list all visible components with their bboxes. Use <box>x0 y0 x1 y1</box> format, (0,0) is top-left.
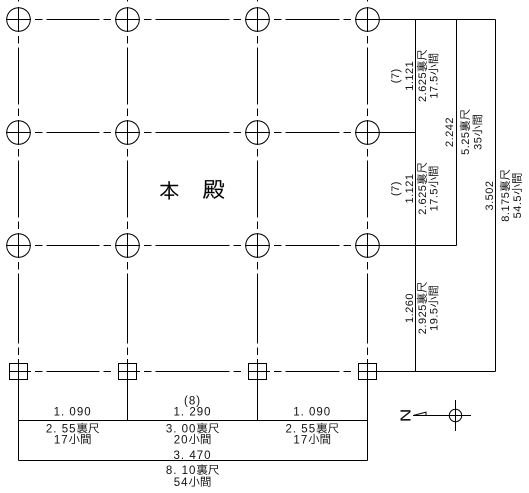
grid column line X4 top dash <box>367 0 369 2</box>
grid row Y4 dash-dot col2-col3 <box>144 371 241 373</box>
north arrow vertical crosshair <box>455 400 457 431</box>
extension line col X4 down <box>367 372 369 461</box>
grid row Y1 dash-dot col2-col3 <box>144 19 241 21</box>
svg-text:1. 290: 1. 290 <box>174 407 212 419</box>
dimension line tier A vertical <box>415 20 417 372</box>
grid row Y3 dash-dot col1-col2 <box>35 245 111 247</box>
grid row line Y2 left stub <box>6 132 19 134</box>
north arrow line <box>413 415 471 417</box>
grid row Y4 dash-dot col1-col2 <box>35 371 111 373</box>
dimension text 3.470 overall width <box>174 450 212 462</box>
svg-text:35: 35 <box>473 137 485 150</box>
svg-text:8. 10: 8. 10 <box>166 465 197 477</box>
svg-text:54.5: 54.5 <box>512 195 524 218</box>
grid column X2 dash-dot row1-row2 <box>127 36 129 116</box>
svg-text:19.5: 19.5 <box>429 307 441 330</box>
svg-text:17: 17 <box>54 435 69 447</box>
svg-text:2.625: 2.625 <box>417 185 429 215</box>
grid column X2 dash-dot row3-row4 <box>127 262 129 355</box>
dimension text 8.10 ura-shaku overall <box>166 464 219 477</box>
dimension text 1.121 span Y2-Y3 <box>404 173 416 203</box>
round column symbol grid X3/Y2 <box>245 120 270 145</box>
round column symbol grid X4/Y2 <box>355 120 380 145</box>
dimension text 1.290 middle span <box>174 407 212 419</box>
svg-text:8.175: 8.175 <box>500 192 512 222</box>
grid row Y2 dash-dot col3-col4 <box>274 132 351 134</box>
grid column X2 dash-dot row2-row3 <box>127 149 129 229</box>
grid row line Y1 left stub <box>6 19 19 21</box>
round column symbol grid X3/Y3 <box>245 233 270 258</box>
grid column X1 dash-dot row2-row3 <box>18 149 20 229</box>
grid row Y1 dash-dot col1-col2 <box>35 19 111 21</box>
dimension text 17.5 koma span Y1-Y2 <box>428 54 440 99</box>
svg-text:(7): (7) <box>390 68 402 83</box>
dimension text 1.090 left span <box>54 407 92 419</box>
svg-text:2.242: 2.242 <box>444 117 456 147</box>
grid row line Y3 left stub <box>6 245 19 247</box>
round column symbol grid X2/Y2 <box>115 120 140 145</box>
dimension text 8.175 ura-shaku overall <box>500 170 512 222</box>
grid column X4 dash-dot row1-row2 <box>367 36 369 116</box>
svg-text:1. 090: 1. 090 <box>54 407 92 419</box>
square post symbol grid X2/Y4 <box>119 359 141 384</box>
grid column X3 dash-dot row1-row2 <box>257 36 259 116</box>
dimension text 17 koma left <box>54 434 91 447</box>
grid column X3 dash-dot row2-row3 <box>257 149 259 229</box>
svg-text:3.502: 3.502 <box>484 180 496 210</box>
grid row Y3 dash-dot col3-col4 <box>274 245 351 247</box>
dimension text 20 koma middle <box>174 434 211 447</box>
dimension text 19.5 koma span Y3-Y4 <box>428 286 440 331</box>
grid column line X2 top dash <box>127 0 129 2</box>
round column symbol grid X2/Y3 <box>115 233 140 258</box>
svg-text:1.121: 1.121 <box>404 61 416 91</box>
grid row Y4 dash-dot col3-col4 <box>274 371 351 373</box>
grid row Y3 dash-dot col2-col3 <box>144 245 241 247</box>
grid column X4 dash-dot row2-row3 <box>367 149 369 229</box>
dimension text (8) middle span <box>184 396 201 408</box>
svg-text:1.260: 1.260 <box>404 293 416 323</box>
svg-text:N: N <box>397 409 414 423</box>
dimension text 2.242 span Y1-Y3 <box>444 117 456 147</box>
svg-text:5.25: 5.25 <box>460 131 472 154</box>
dimension text 2.625 ura-shaku span Y1-Y2 <box>417 50 429 102</box>
north arrow circle <box>449 409 461 421</box>
round column symbol grid X3/Y1 <box>245 7 270 32</box>
title text 本 (main hall) <box>160 181 178 199</box>
round column symbol grid X4/Y1 <box>355 7 380 32</box>
grid column X3 dash-dot row3-row4 <box>257 262 259 355</box>
dimension text 1.121 span Y1-Y2 <box>404 61 416 91</box>
round column symbol grid X1/Y3 <box>6 233 31 258</box>
dimension text 3.502 overall height <box>484 180 496 210</box>
extension line col X3 down <box>257 372 259 421</box>
grid row Y1 dash-dot col3-col4 <box>274 19 351 21</box>
dimension line tier C vertical <box>495 20 497 372</box>
grid column X1 dash-dot row3-row4 <box>18 262 20 355</box>
extension line row Y4 to right <box>368 371 496 373</box>
title text 殿 (main hall) <box>203 180 224 199</box>
dimension line tier 1 horizontal <box>19 420 368 422</box>
round column symbol grid X1/Y1 <box>6 7 31 32</box>
svg-text:17.5: 17.5 <box>429 188 441 211</box>
dimension text (7) span Y1-Y2 <box>390 68 402 83</box>
grid row Y2 dash-dot col2-col3 <box>144 132 241 134</box>
dimension text 17.5 koma span Y2-Y3 <box>428 167 440 212</box>
svg-text:2.625: 2.625 <box>417 72 429 102</box>
round column symbol grid X4/Y3 <box>355 233 380 258</box>
svg-text:20: 20 <box>174 435 189 447</box>
dimension text 17 koma right <box>293 434 330 447</box>
grid column X4 dash-dot row3-row4 <box>367 262 369 355</box>
round column symbol grid X2/Y1 <box>115 7 140 32</box>
extension line row Y2 to right <box>368 132 416 134</box>
dimension line tier B vertical <box>456 20 458 246</box>
svg-text:2.925: 2.925 <box>417 304 429 334</box>
square post symbol grid X3/Y4 <box>249 359 271 384</box>
dimension line tier 2 horizontal <box>19 460 368 462</box>
dimension text 2.925 ura-shaku span Y3-Y4 <box>417 282 429 334</box>
svg-text:1. 090: 1. 090 <box>293 407 331 419</box>
square post symbol grid X1/Y4 <box>10 359 32 384</box>
extension line row Y1 to right <box>368 19 496 21</box>
dimension text 54.5 koma overall <box>512 174 524 219</box>
extension line col X1 down <box>18 372 20 461</box>
grid column line X3 top dash <box>257 0 259 2</box>
svg-text:17: 17 <box>293 435 308 447</box>
grid row Y2 dash-dot col1-col2 <box>35 132 111 134</box>
dimension text 5.25 ura-shaku span Y1-Y3 <box>460 110 472 155</box>
dimension text 2.55 ura-shaku left <box>46 423 99 436</box>
extension line row Y3 to right <box>368 245 457 247</box>
grid column X1 dash-dot row1-row2 <box>18 36 20 116</box>
extension line col X2 down <box>127 372 129 421</box>
dimension text 2.625 ura-shaku span Y2-Y3 <box>417 163 429 215</box>
north arrow head <box>413 412 426 415</box>
dimension text (7) span Y2-Y3 <box>390 181 402 196</box>
dimension text 3.00 ura-shaku middle <box>166 423 219 436</box>
square post symbol grid X4/Y4 <box>359 359 381 384</box>
dimension text 35 koma span Y1-Y3 <box>472 115 484 150</box>
round column symbol grid X1/Y2 <box>6 120 31 145</box>
svg-text:54: 54 <box>174 477 189 489</box>
dimension text 1.260 span Y3-Y4 <box>404 293 416 323</box>
svg-text:1.121: 1.121 <box>404 173 416 203</box>
dimension text 54 koma overall <box>174 476 211 489</box>
dimension text 2.55 ura-shaku right <box>286 423 339 436</box>
svg-text:(7): (7) <box>390 181 402 196</box>
grid column line X1 top dash <box>18 0 20 2</box>
svg-text:3. 470: 3. 470 <box>174 450 212 462</box>
svg-text:17.5: 17.5 <box>429 75 441 98</box>
dimension text 1.090 right span <box>293 407 331 419</box>
